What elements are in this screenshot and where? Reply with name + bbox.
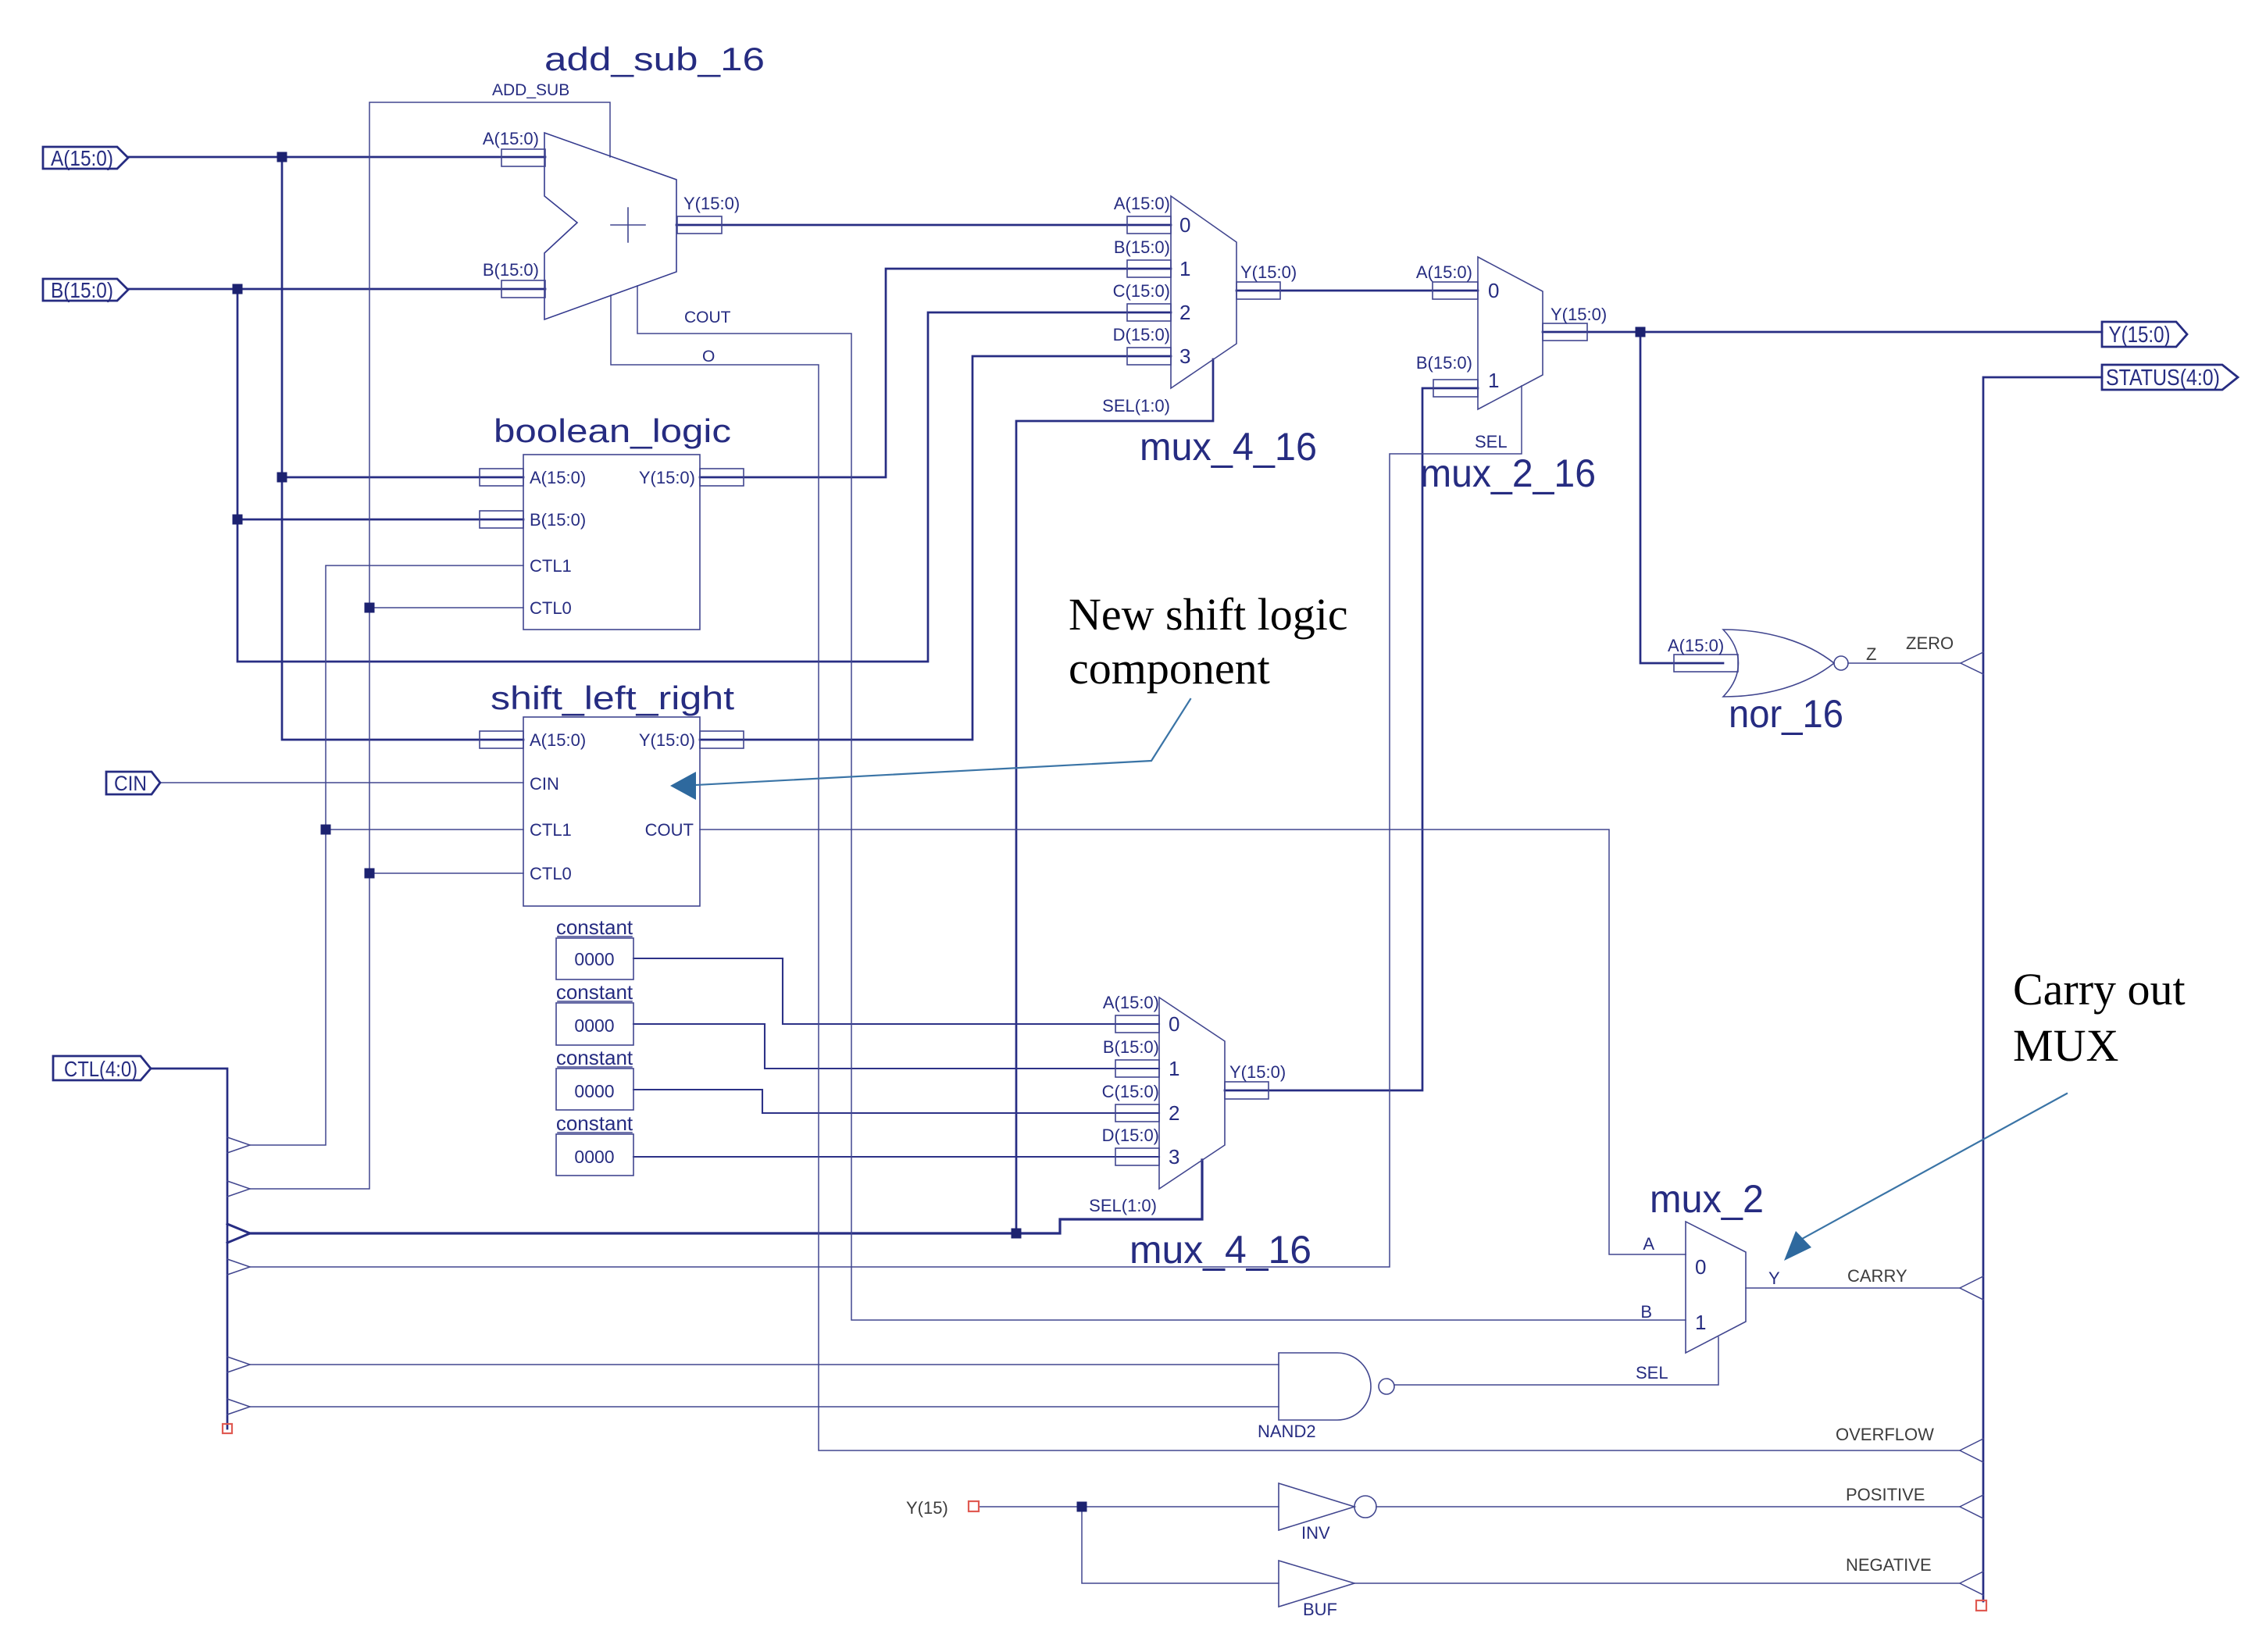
svg-text:1: 1	[1695, 1311, 1706, 1334]
PORTS-LEFT	[43, 147, 2238, 1080]
wire mux_2_16 Y to Y port	[1543, 331, 2102, 334]
INV bubble	[1354, 1496, 1376, 1518]
pin 0 mux bottom	[1115, 1015, 1159, 1033]
pin A mux_2_16	[1433, 282, 1478, 299]
pin 1 mux top	[1127, 260, 1171, 277]
wire top mux Y to mux_2_16 A	[1236, 290, 1478, 292]
BUS TAPS LEFT	[227, 1137, 250, 1415]
svg-text:COUT: COUT	[684, 309, 731, 326]
wire CTL1 net	[250, 566, 523, 1145]
svg-text:Y: Y	[1768, 1268, 1780, 1288]
terminal STATUS end	[1976, 1600, 1986, 1611]
pin 2 mux bottom	[1115, 1104, 1159, 1122]
RED TERMINALS	[223, 1424, 1986, 1611]
node SEL junction	[1012, 1229, 1022, 1239]
nor_16 body	[1723, 630, 1834, 697]
wire nor_16 Z to ZERO	[1848, 662, 1961, 664]
wire ADD_SUB / CTL0 net	[250, 102, 610, 1189]
mux_4_16 top body	[1171, 196, 1236, 388]
svg-text:CTL1: CTL1	[530, 556, 572, 576]
svg-text:1: 1	[1179, 257, 1190, 280]
svg-text:STATUS(4:0): STATUS(4:0)	[2106, 366, 2220, 391]
tap CTL0	[227, 1181, 250, 1197]
BOX boolean_logic	[480, 455, 744, 630]
pin labels mux_4_16 top	[1102, 194, 1297, 416]
svg-text:Y(15:0): Y(15:0)	[1229, 1062, 1286, 1082]
pin 1 mux bottom	[1115, 1060, 1159, 1077]
pin B mux_2_16	[1433, 380, 1478, 397]
svg-text:O: O	[702, 348, 715, 366]
svg-text:B(15:0): B(15:0)	[483, 260, 539, 280]
svg-text:SEL: SEL	[1636, 1363, 1668, 1383]
wire INV out to POSITIVE	[1376, 1506, 1960, 1507]
svg-text:C(15:0): C(15:0)	[1102, 1082, 1159, 1101]
svg-text:1: 1	[1488, 369, 1499, 392]
tap POSITIVE	[1960, 1495, 1983, 1518]
svg-text:CARRY: CARRY	[1847, 1266, 1907, 1286]
svg-text:1: 1	[1169, 1057, 1179, 1080]
port STATUS(4:0) out	[2102, 365, 2238, 390]
svg-text:B(15:0): B(15:0)	[1103, 1037, 1159, 1057]
constant label underlines	[558, 937, 632, 1133]
BUF body	[1279, 1561, 1354, 1607]
port CIN	[106, 772, 160, 794]
wire add_sub COUT to mux_2 B	[637, 286, 1686, 1320]
svg-text:Z: Z	[1866, 644, 1876, 664]
pin A shift	[480, 731, 523, 748]
wire A vertical branch	[282, 157, 523, 740]
svg-text:CIN: CIN	[114, 772, 147, 795]
svg-text:mux_2: mux_2	[1650, 1177, 1764, 1221]
pin labels mux_4_16 bottom	[1089, 993, 1286, 1215]
wire shift Y to mux D	[700, 356, 1171, 740]
constant box 2	[556, 1003, 633, 1045]
svg-text:A(15:0): A(15:0)	[1416, 262, 1472, 282]
svg-text:constant: constant	[556, 1046, 633, 1069]
wire constant3 to mux C	[633, 1090, 1159, 1113]
svg-text:COUT: COUT	[645, 820, 694, 840]
wire constant2 to mux B	[633, 1024, 1159, 1069]
terminal Y15	[969, 1501, 979, 1511]
NAND2 bubble	[1379, 1379, 1394, 1394]
ADDER add_sub_16	[501, 133, 722, 319]
pin labels add_sub	[483, 81, 740, 366]
svg-text:D(15:0): D(15:0)	[1102, 1126, 1159, 1145]
node Y15 junction	[1077, 1502, 1087, 1512]
svg-text:mux_2_16: mux_2_16	[1420, 451, 1596, 495]
svg-text:NEGATIVE: NEGATIVE	[1846, 1555, 1932, 1575]
svg-text:2: 2	[1179, 301, 1190, 324]
note shift arrow	[696, 699, 1190, 785]
svg-text:B(15:0): B(15:0)	[530, 510, 586, 530]
tap NAND in2	[227, 1399, 250, 1415]
tap OVERFLOW	[1960, 1439, 1983, 1462]
GATE INV	[1279, 1483, 1376, 1530]
svg-text:New shift logic: New shift logic	[1069, 589, 1348, 640]
svg-text:A(15:0): A(15:0)	[483, 129, 539, 148]
svg-text:Carry out: Carry out	[2013, 964, 2186, 1015]
svg-text:0: 0	[1179, 213, 1190, 237]
svg-text:B(15:0): B(15:0)	[1114, 237, 1170, 257]
wire B vertical branch to boolean B and mux C	[237, 289, 1171, 662]
constant values 0000	[574, 949, 614, 1167]
pin 3 mux bottom	[1115, 1148, 1159, 1165]
pin labels mux_2	[1636, 1234, 1780, 1383]
svg-text:A: A	[1643, 1234, 1654, 1254]
wire boolean Y to mux B	[700, 269, 1171, 477]
shift body	[523, 717, 700, 906]
pin numbers mux_2	[1695, 1255, 1706, 1334]
svg-text:B(15:0): B(15:0)	[51, 278, 113, 302]
svg-text:ZERO: ZERO	[1906, 633, 1954, 653]
svg-text:A(15:0): A(15:0)	[530, 730, 586, 750]
svg-text:A(15:0): A(15:0)	[1103, 993, 1159, 1012]
mux_4_16 bottom body	[1159, 997, 1225, 1189]
svg-text:A(15:0): A(15:0)	[1668, 636, 1724, 655]
svg-text:Y(15:0): Y(15:0)	[639, 730, 695, 750]
svg-text:SEL: SEL	[1475, 432, 1508, 451]
BUS TAPS RIGHT	[1960, 652, 1983, 1595]
wire CTL input bus	[151, 1069, 227, 1429]
pin Y boolean	[700, 469, 744, 486]
INV body	[1279, 1483, 1354, 1530]
adder body	[544, 133, 676, 319]
svg-text:Y(15:0): Y(15:0)	[683, 194, 740, 213]
mux_2 body	[1686, 1222, 1746, 1353]
tap NEGATIVE	[1960, 1572, 1983, 1595]
svg-text:mux_4_16: mux_4_16	[1129, 1228, 1311, 1272]
wire add_sub Y to mux A	[676, 224, 1171, 227]
svg-text:C(15:0): C(15:0)	[1113, 281, 1170, 301]
pin 0 mux top	[1127, 216, 1171, 234]
svg-text:A(15:0): A(15:0)	[51, 146, 113, 170]
tap ZERO	[1961, 652, 1983, 674]
wire A input net	[128, 156, 545, 159]
GATE NAND2	[1279, 1353, 1394, 1420]
wire CIN net	[160, 782, 523, 783]
pin numbers mux_4_16 bottom	[1169, 1012, 1179, 1169]
wire mux_2 Y to CARRY	[1746, 1287, 1960, 1289]
wire bottom mux Y to mux_2_16 B	[1225, 388, 1478, 1090]
note carry arrow	[1802, 1094, 2067, 1239]
tap SEL bold	[227, 1224, 250, 1243]
port Y(15:0) out	[2102, 322, 2187, 347]
wire Y branch to nor_16	[1640, 332, 1723, 663]
port CTL(4:0)	[53, 1056, 151, 1080]
MUX mux_2_16	[1433, 257, 1587, 409]
wire shift COUT to mux_2 A	[700, 830, 1686, 1254]
tap NAND in1	[227, 1357, 250, 1372]
svg-text:constant: constant	[556, 1111, 633, 1135]
node Y output junction	[1636, 327, 1646, 337]
wire CTL4 to mux_2_16 SEL	[250, 386, 1522, 1267]
node boolean A junction	[277, 473, 287, 483]
port A(15:0)	[43, 147, 128, 169]
wire STATUS bus	[1983, 377, 2102, 1601]
MUX mux_4_16 bottom	[1115, 997, 1269, 1189]
node CTL1 shift junction	[321, 825, 331, 835]
pin numbers mux_2_16	[1488, 279, 1499, 392]
pin B add_sub	[501, 280, 545, 298]
svg-text:0000: 0000	[574, 1015, 614, 1036]
net labels CARRY OVERFLOW POSITIVE NEGATIVE Y15	[906, 1266, 1934, 1575]
svg-text:CTL0: CTL0	[530, 864, 572, 883]
svg-text:3: 3	[1169, 1145, 1179, 1169]
svg-text:A(15:0): A(15:0)	[530, 468, 586, 487]
pin 3 mux top	[1127, 348, 1171, 365]
svg-text:CIN: CIN	[530, 774, 559, 794]
GATE nor_16	[1674, 630, 1848, 697]
svg-text:0000: 0000	[574, 1147, 614, 1167]
svg-text:A(15:0): A(15:0)	[1114, 194, 1170, 213]
svg-text:ADD_SUB: ADD_SUB	[492, 81, 569, 99]
svg-text:SEL(1:0): SEL(1:0)	[1089, 1196, 1157, 1215]
node boolean B junction	[233, 515, 243, 525]
pin labels shift_left_right	[530, 730, 695, 883]
pin A boolean	[480, 469, 523, 486]
GATE BUF	[1279, 1561, 1354, 1607]
svg-text:Y(15:0): Y(15:0)	[1551, 305, 1607, 324]
nor_16 bubble	[1834, 656, 1848, 670]
svg-text:0: 0	[1488, 279, 1499, 302]
pin labels boolean_logic	[530, 468, 695, 618]
svg-text:component: component	[1069, 643, 1270, 694]
svg-text:0: 0	[1169, 1012, 1179, 1036]
wire BUF out to NEGATIVE	[1354, 1582, 1960, 1584]
svg-text:CTL1: CTL1	[530, 820, 572, 840]
node CTL0 boolean junction	[365, 603, 375, 613]
wire constant1 to mux A	[633, 958, 1159, 1024]
wire B input net	[128, 288, 545, 291]
wire SEL branch to top mux	[1016, 359, 1213, 1233]
svg-text:mux_4_16: mux_4_16	[1140, 425, 1317, 469]
svg-text:D(15:0): D(15:0)	[1113, 325, 1170, 344]
node A junction	[277, 152, 287, 162]
constant box 1	[556, 938, 633, 979]
node B junction	[233, 284, 243, 294]
svg-text:0000: 0000	[574, 1081, 614, 1101]
svg-text:shift_left_right: shift_left_right	[491, 680, 734, 716]
svg-text:0: 0	[1695, 1255, 1706, 1279]
pin A nor_16	[1674, 655, 1738, 672]
port labels	[51, 146, 2220, 1081]
svg-text:0000: 0000	[574, 949, 614, 969]
svg-text:Y(15:0): Y(15:0)	[639, 468, 695, 487]
svg-text:OVERFLOW: OVERFLOW	[1836, 1425, 1934, 1444]
svg-text:BUF: BUF	[1303, 1600, 1337, 1619]
svg-text:NAND2: NAND2	[1258, 1422, 1316, 1441]
svg-text:SEL(1:0): SEL(1:0)	[1102, 396, 1170, 416]
pin numbers mux_4_16 top	[1179, 213, 1190, 368]
svg-text:Y(15:0): Y(15:0)	[1240, 262, 1297, 282]
BOX shift_left_right	[480, 717, 744, 906]
svg-text:boolean_logic: boolean_logic	[494, 412, 731, 449]
svg-text:3: 3	[1179, 344, 1190, 368]
adder plus sign	[611, 208, 645, 242]
CONSTANTS	[556, 938, 633, 1176]
constant box 4	[556, 1134, 633, 1176]
svg-text:constant: constant	[556, 980, 633, 1004]
terminal CTL end	[223, 1424, 232, 1433]
pin Y mux_2_16	[1543, 323, 1587, 341]
wire NAND2 out to mux_2 SEL	[1394, 1337, 1718, 1385]
wire add_sub O to OVERFLOW	[611, 295, 1960, 1450]
svg-text:add_sub_16: add_sub_16	[544, 41, 765, 77]
MUX mux_2	[1686, 1222, 1746, 1353]
tap CTL3	[227, 1259, 250, 1275]
tap CTL1	[227, 1137, 250, 1153]
mux_2_16 body	[1478, 257, 1543, 409]
svg-text:INV: INV	[1301, 1523, 1330, 1543]
constant box 3	[556, 1069, 633, 1110]
NAND2 body	[1279, 1353, 1371, 1420]
svg-text:CTL0: CTL0	[530, 598, 572, 618]
pin 2 mux top	[1127, 304, 1171, 321]
svg-text:POSITIVE: POSITIVE	[1846, 1485, 1925, 1504]
wire SEL(1:0) bus	[250, 1160, 1202, 1233]
WIRES-THIN	[160, 102, 1961, 1583]
wire NAND2 inputs	[250, 1365, 1279, 1407]
svg-text:constant: constant	[556, 915, 633, 939]
WIRES-MED	[633, 958, 1159, 1157]
pin B boolean	[480, 511, 523, 528]
node CTL0 shift junction	[365, 869, 375, 879]
pin Y mux top	[1236, 282, 1280, 299]
pin Y add_sub	[677, 216, 722, 234]
MUX mux_4_16 top	[1127, 196, 1280, 388]
pin Y mux bottom	[1225, 1082, 1269, 1099]
pin Y shift	[700, 731, 744, 748]
constant labels	[556, 915, 633, 1135]
tap CARRY	[1960, 1276, 1983, 1300]
svg-text:B: B	[1640, 1302, 1652, 1322]
boolean body	[523, 455, 700, 630]
wire constant4 to mux D	[633, 1156, 1159, 1158]
port B(15:0)	[43, 279, 128, 301]
pin A add_sub	[501, 149, 545, 166]
WIRES-THICK	[128, 157, 2102, 1601]
svg-text:MUX: MUX	[2013, 1020, 2118, 1071]
pin labels mux_2_16	[1416, 262, 1607, 451]
svg-text:Y(15): Y(15)	[906, 1498, 948, 1518]
svg-text:nor_16: nor_16	[1729, 692, 1843, 736]
svg-text:CTL(4:0): CTL(4:0)	[64, 1057, 137, 1081]
wire Y(15) to INV and BUF	[979, 1507, 1279, 1583]
svg-text:Y(15:0): Y(15:0)	[2109, 323, 2171, 348]
svg-text:2: 2	[1169, 1101, 1179, 1125]
svg-text:B(15:0): B(15:0)	[1416, 353, 1472, 373]
